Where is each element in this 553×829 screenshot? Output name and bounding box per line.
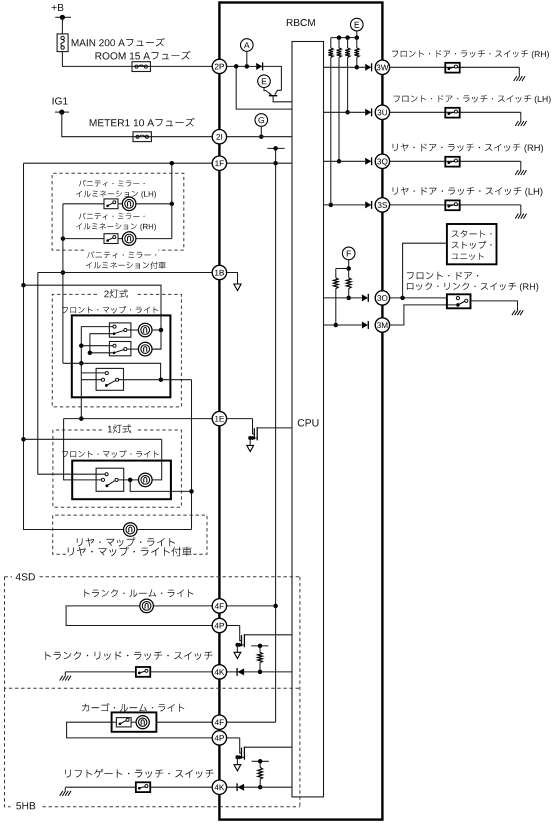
wire 3O right [389, 297, 447, 299]
front map light unit box [72, 315, 171, 397]
wire CPU to 3O [324, 297, 362, 299]
bulb cargo room [136, 716, 149, 729]
wire vanity RH row [63, 238, 104, 240]
ground [517, 307, 519, 310]
resistor trunk stub [251, 645, 268, 647]
diode 3M [362, 322, 368, 329]
connector 4P [212, 731, 226, 745]
wire switch to 4K [150, 671, 212, 673]
label rear map light [77, 537, 175, 546]
wire 1E to gate [227, 418, 253, 420]
RBCM module box [219, 3, 382, 820]
wire vanity LH row [63, 203, 104, 205]
wire 4K cargo right [227, 786, 292, 788]
switch map 2 [109, 342, 130, 356]
wire 2I to CPU [227, 136, 292, 138]
fuse METER1 10A [133, 132, 151, 142]
wire E stem [356, 31, 358, 38]
wire 2P to diode [227, 65, 257, 67]
front map light unit box 1-lamp [72, 461, 171, 500]
wire internal rail [275, 148, 277, 722]
wire 1F rail link [24, 438, 162, 440]
wire CPU to 3M [324, 324, 362, 326]
wire lamp feed to map lights [24, 285, 162, 349]
wire switch to bulb LH [118, 203, 122, 205]
bulb trunk room [140, 599, 154, 613]
connector 3O [375, 291, 389, 305]
label 1-lamp type [108, 424, 131, 433]
wire lamp output vertical [191, 380, 193, 530]
diode 3U [365, 109, 371, 116]
wire CPU to 3U [324, 111, 366, 113]
wire switch1 feeds [81, 326, 113, 328]
wire bulb1 right [152, 329, 161, 331]
resistor cargo stub [252, 760, 269, 762]
wire lock-link to ground [471, 301, 518, 307]
connector 1E [212, 411, 226, 425]
connector 4P [212, 618, 226, 632]
label 4SD [16, 573, 35, 580]
wire 3S to switch [389, 204, 520, 206]
switch vanity RH [104, 234, 118, 244]
fuse ROOM 15A [132, 62, 150, 72]
2-lamp dashed box [52, 294, 181, 407]
wire F branch [336, 268, 349, 270]
wire switch to bulb RH [118, 238, 122, 240]
wire 1E feed down [64, 419, 102, 480]
wire vanity left vertical [62, 204, 64, 363]
wire 3Q to switch [389, 160, 520, 162]
diode 3S [365, 201, 371, 208]
wire bulb LH right [136, 203, 172, 205]
switch vanity LH [104, 199, 118, 209]
wire switch feed vertical A [80, 327, 82, 419]
connector 3M [375, 318, 389, 332]
node A [241, 39, 254, 52]
4SD region border [5, 577, 300, 807]
junction dot [234, 64, 239, 69]
bulb map 1 [138, 323, 152, 337]
label 5HB [16, 802, 35, 809]
wire ground to switch [65, 671, 136, 673]
CPU label [298, 419, 319, 426]
wire 4F cargo [156, 721, 212, 723]
wire lamp output [119, 379, 192, 381]
cargo lamp unit box [112, 712, 157, 731]
ground [520, 161, 522, 166]
connector 4K [212, 665, 226, 679]
wire 3M right [389, 305, 456, 325]
wire 4K right [227, 671, 292, 673]
caption rear map light [68, 547, 192, 557]
wire A stem [246, 51, 248, 66]
bulb vanity RH [122, 232, 136, 246]
resistor F right [348, 269, 350, 278]
wire switch2 feeds [81, 345, 113, 347]
ground [64, 788, 66, 791]
diode 3W [365, 64, 371, 71]
wire switch to 4K cargo [150, 786, 212, 788]
wire switch feed vertical B [89, 334, 91, 353]
connector 3U [375, 105, 389, 119]
switch map master [96, 368, 123, 390]
mosfet cargo driver [240, 738, 241, 753]
node +B [52, 4, 64, 11]
switch lock-link RH [447, 294, 471, 308]
wire IG1 to 2I [62, 112, 213, 137]
wire Q1 to CPU [273, 96, 292, 102]
ground [520, 205, 522, 210]
wire to start-stop unit [403, 243, 447, 298]
node E top [351, 18, 364, 31]
switch cargo lamp [116, 718, 131, 727]
resistor pull-up x339.0 [338, 38, 340, 48]
fuse MAIN 200A [57, 34, 68, 52]
label trunk lid latch switch [45, 651, 212, 660]
wire 4F right [227, 605, 276, 607]
resistor cargo [259, 761, 261, 767]
connector 2I [212, 130, 226, 144]
wire vanity net link [63, 363, 161, 379]
wire vanity right vertical [171, 163, 173, 238]
diode 4K cargo [236, 783, 238, 791]
wire 4F to bulb [153, 605, 212, 607]
wire bulb RH right [136, 238, 172, 240]
wire 2P branch to CPU [236, 66, 292, 109]
label 2-lamp type [104, 289, 128, 298]
label trunk room light [84, 589, 193, 597]
connector 1B [212, 265, 226, 279]
node F [342, 247, 355, 260]
wire rear bulb left [24, 529, 124, 531]
transistor Q1 [264, 87, 270, 94]
wire switch1 to bulb1 [127, 329, 138, 331]
connector 2P [212, 59, 226, 73]
wire ground to liftgate switch [65, 786, 136, 788]
wire big switch feeds [81, 372, 105, 374]
mosfet interior driver [253, 419, 254, 434]
bulb vanity LH [122, 197, 136, 211]
diode D1 [256, 63, 262, 70]
label リヤ・ドア・ラッチ・スイッチ (RH) [393, 143, 543, 153]
resistor pull-up x347.6 [347, 38, 349, 48]
switch フロント・ドア・ラッチ・スイッチ (RH) [445, 63, 459, 73]
connector 3Q [375, 154, 389, 168]
junction dot [245, 64, 250, 69]
wire cargo unit internal [112, 721, 117, 723]
wire bulb right to 1F rail [152, 439, 162, 480]
wire cargo loop to 4P [67, 722, 213, 738]
wire 1F left [24, 162, 213, 164]
wire CPU to 3W [324, 66, 366, 68]
label vanity RH [79, 213, 145, 220]
resistor F left [335, 269, 337, 278]
switch map single [96, 468, 124, 491]
wire 4F cargo right [227, 721, 276, 723]
switch リヤ・ドア・ラッチ・スイッチ (RH) [445, 157, 459, 167]
wire switch2 to bulb2 [127, 348, 138, 350]
wire 4P cargo to gate [227, 737, 240, 739]
diode 4K [236, 668, 238, 676]
wire 3U to switch [389, 111, 520, 113]
1-lamp dashed box [53, 430, 182, 507]
resistor bus [331, 37, 357, 39]
wire 1F to CPU [227, 162, 292, 164]
junction dot [273, 161, 278, 166]
bulb rear map [124, 523, 138, 537]
wire 1F lamp rail [24, 163, 124, 529]
connector 4K [212, 780, 226, 794]
wire G stem [260, 126, 262, 137]
switch リヤ・ドア・ラッチ・スイッチ (LH) [445, 200, 459, 210]
label liftgate latch switch [65, 769, 213, 778]
wire 1B feed down [37, 273, 39, 475]
label フロント・ドア・ラッチ・スイッチ (LH) [394, 95, 551, 104]
mosfet trunk driver [240, 626, 241, 641]
wire 1E left [64, 418, 213, 420]
bulb map 2 [138, 342, 152, 356]
resistor pull-up x330.8 [330, 38, 332, 48]
resistor trunk [259, 646, 261, 652]
wire bulb loop to 4P [66, 606, 212, 626]
bulb map single [139, 473, 153, 487]
wire +B to fuse [61, 17, 63, 34]
label front map light [62, 450, 159, 458]
wire fuse to 2P [62, 52, 212, 67]
diode 3O [362, 294, 368, 301]
wire F stem [348, 260, 350, 269]
ground [64, 672, 66, 675]
label cargo room light [82, 703, 184, 712]
junction dot [259, 134, 264, 139]
vanity dashed box [52, 173, 184, 250]
junction dot [273, 604, 278, 609]
wire CPU to 3S [324, 204, 366, 206]
switch trunk lid latch [136, 667, 150, 677]
wire lamp join [130, 480, 191, 492]
connector 4F [212, 715, 226, 729]
switch liftgate latch [136, 782, 150, 792]
start-stop unit box [447, 224, 497, 264]
caption vanity [87, 251, 156, 258]
wire 1B right arrow [227, 273, 238, 284]
label vanity LH [79, 180, 145, 187]
switch map 1 [109, 323, 130, 337]
node E [258, 75, 271, 88]
ground [520, 112, 522, 117]
wire 3W to switch [389, 66, 519, 68]
label リヤ・ドア・ラッチ・スイッチ (LH) [393, 187, 543, 197]
switch フロント・ドア・ラッチ・スイッチ (LH) [445, 108, 459, 118]
wire bulb2 right [152, 348, 161, 350]
wire CPU to 3Q [324, 160, 366, 162]
node G [255, 114, 268, 127]
connector 4F [212, 599, 226, 613]
label フロント・ドア・ラッチ・スイッチ (RH) [392, 50, 549, 59]
wire 1B feed to switch [38, 473, 105, 475]
diode 3Q [365, 158, 371, 165]
connector 3S [375, 198, 389, 212]
label front map light [62, 306, 158, 314]
connector 1F [212, 156, 226, 170]
rear map dashed box [53, 515, 207, 554]
resistor pull-up x356.8 [356, 38, 358, 48]
CPU box [292, 42, 324, 797]
connector 3W [375, 60, 389, 74]
wire switch to bulb single [118, 479, 138, 481]
RBCM label [287, 19, 315, 26]
rail stub [267, 147, 284, 149]
wire diode to transistor collector [263, 66, 282, 90]
wire 4P to gate [227, 625, 240, 627]
node IG1 [53, 97, 68, 104]
ground [518, 67, 520, 72]
label front door lock link switch [407, 272, 478, 280]
wire rear bulb right [137, 529, 191, 531]
wire 1B left [38, 272, 213, 274]
